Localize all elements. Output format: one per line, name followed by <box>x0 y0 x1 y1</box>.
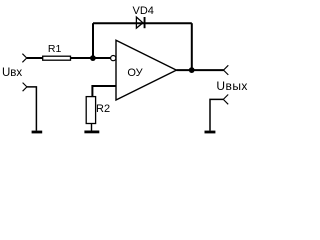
label R1 <box>48 43 62 55</box>
wire: feedback right vertical <box>191 23 193 70</box>
svg-text:R2: R2 <box>96 103 110 115</box>
wire: R1 to inverting input <box>71 57 111 59</box>
wire: input terminal to R1 <box>27 57 43 59</box>
diode VD4 <box>136 17 145 28</box>
terminal: lower left <box>23 83 27 92</box>
inversion bubble <box>111 56 116 61</box>
wire: op-amp output <box>176 69 223 71</box>
ground (under R2) <box>84 131 99 134</box>
junction node OUT <box>189 67 195 73</box>
junction node A <box>90 55 96 61</box>
label Uвых <box>216 79 247 93</box>
wire: non-inverting input <box>92 86 116 97</box>
resistor R2 <box>86 97 95 124</box>
label R2 <box>96 103 110 115</box>
svg-text:ОУ: ОУ <box>127 67 143 79</box>
wire: feedback left vertical <box>92 23 94 58</box>
label ОУ <box>127 67 143 79</box>
ground (lower left) <box>32 131 43 134</box>
wire: lower left terminal to ground <box>27 87 37 131</box>
svg-text:VD4: VD4 <box>132 5 153 17</box>
label Uвх <box>2 67 22 79</box>
terminal: lower right <box>223 95 228 105</box>
ground (lower right) <box>205 131 216 134</box>
svg-text:R1: R1 <box>48 43 62 55</box>
resistor R1 <box>43 56 71 60</box>
terminal: Uвых output <box>224 65 229 75</box>
op-amp U1 <box>116 40 176 100</box>
wire: R2 to ground <box>91 124 93 131</box>
wire: lower right terminal to ground <box>210 99 223 130</box>
wire: top rail <box>93 22 192 24</box>
label VD4 <box>132 5 153 17</box>
svg-text:Uвых: Uвых <box>216 79 247 93</box>
svg-text:Uвх: Uвх <box>2 67 22 79</box>
terminal: Uвх input <box>22 54 26 63</box>
